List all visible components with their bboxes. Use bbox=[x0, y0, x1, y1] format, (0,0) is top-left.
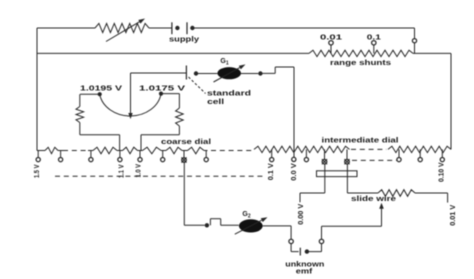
svg-text:cell: cell bbox=[207, 97, 224, 106]
svg-text:0.01: 0.01 bbox=[320, 35, 342, 42]
svg-text:G1: G1 bbox=[220, 58, 228, 67]
svg-text:coarse dial: coarse dial bbox=[161, 139, 211, 146]
svg-text:slide wire: slide wire bbox=[351, 196, 396, 203]
svg-text:supply: supply bbox=[169, 37, 199, 44]
svg-text:0.00 V: 0.00 V bbox=[296, 204, 305, 225]
svg-text:1.0195 V: 1.0195 V bbox=[80, 83, 122, 92]
svg-text:0.10 V: 0.10 V bbox=[437, 162, 446, 182]
svg-text:0.1: 0.1 bbox=[367, 35, 381, 42]
svg-text:0.01 V: 0.01 V bbox=[448, 205, 457, 226]
svg-text:range shunts: range shunts bbox=[330, 60, 391, 67]
svg-text:1.5 V: 1.5 V bbox=[32, 165, 41, 179]
svg-text:G2: G2 bbox=[242, 211, 250, 220]
svg-text:1.0175 V: 1.0175 V bbox=[139, 83, 185, 92]
svg-text:0.0 V: 0.0 V bbox=[289, 163, 298, 181]
svg-text:1.0 V: 1.0 V bbox=[133, 164, 142, 178]
svg-text:emf: emf bbox=[296, 267, 313, 276]
svg-text:intermediate dial: intermediate dial bbox=[322, 138, 399, 145]
svg-text:0.1 V: 0.1 V bbox=[266, 163, 275, 180]
